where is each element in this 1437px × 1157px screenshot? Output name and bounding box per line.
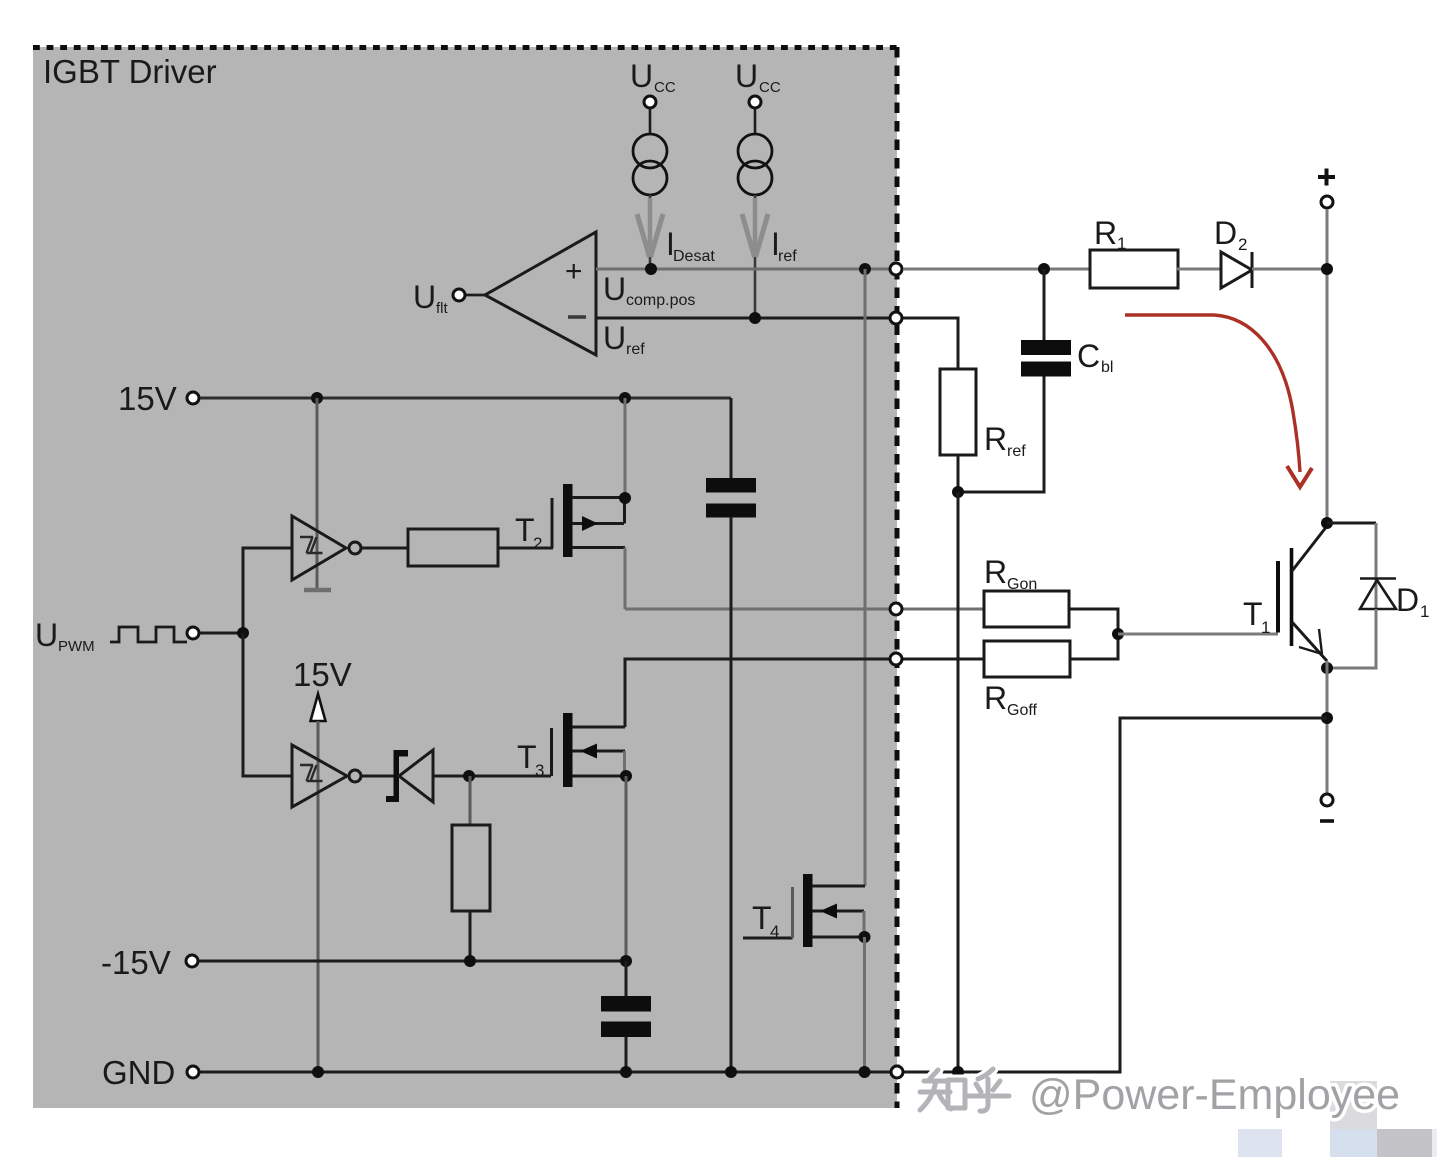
node plus line to border junction (859, 263, 871, 275)
label RGon (984, 554, 1037, 593)
svg-text:Desat: Desat (673, 248, 715, 265)
svg-text:U: U (630, 58, 653, 94)
label U_flt (413, 279, 449, 317)
label T1 (1243, 596, 1270, 637)
label minus output (1320, 819, 1334, 823)
bypass capacitor top (706, 478, 756, 518)
node T1 emitter (1321, 662, 1333, 674)
IGBT Driver title (43, 53, 217, 90)
node GND Rref on white side (952, 1066, 964, 1078)
wire inverter2 ground vertical to GND (317, 721, 320, 1072)
IGBT Driver block background (33, 47, 897, 1108)
svg-text:bl: bl (1101, 359, 1113, 376)
label Ucc left (630, 58, 676, 96)
wire T4 source to GND (863, 937, 866, 1072)
svg-text:ref: ref (626, 341, 645, 358)
wire pulldown resistor to -15V rail (469, 911, 472, 961)
svg-text:R: R (984, 680, 1007, 716)
wire emitter down (1326, 661, 1329, 800)
svg-text:D: D (1214, 215, 1237, 251)
terminal Ucc right (749, 96, 761, 108)
wire GND rail (200, 1071, 890, 1074)
watermark zhihu (920, 1069, 1400, 1119)
node I_Desat junction (645, 263, 657, 275)
wire Cbl top (1043, 269, 1046, 340)
label Ucc right (735, 58, 781, 96)
inverter U2 schmitt trigger (292, 516, 361, 580)
terminal minus output (1321, 794, 1333, 806)
svg-text:+: + (565, 255, 583, 288)
label plus supply (1318, 169, 1335, 186)
node 15V T2 branch (619, 392, 631, 404)
svg-text:U: U (603, 271, 626, 307)
op-amp comparator U_flt (485, 232, 596, 355)
label D1 (1396, 582, 1429, 621)
wire diode to T3 gate node (433, 775, 551, 778)
node R1 / Cbl junction (1038, 263, 1050, 275)
dashed border right (895, 47, 900, 1108)
wire D2 to plus node (1252, 268, 1327, 271)
label 15V rail (118, 380, 177, 417)
label I_Desat (666, 226, 715, 265)
svg-text:U: U (603, 320, 626, 356)
svg-text:ref: ref (1007, 443, 1026, 460)
wire comparator minus input line U_ref (596, 317, 958, 320)
wire under current source 1 (649, 195, 652, 266)
resistor R1 (1090, 250, 1178, 288)
svg-text:comp.pos: comp.pos (626, 292, 695, 309)
node T1 collector (1321, 517, 1333, 529)
wire D1 bottom vertical (1327, 609, 1376, 668)
svg-text:U: U (35, 617, 58, 653)
node T2 drain (619, 492, 631, 504)
terminal U_comp.pos on border (890, 263, 902, 275)
node U_PWM split (237, 627, 249, 639)
diode D2 (1221, 252, 1252, 288)
node plus rail / D2 (1321, 263, 1333, 275)
label U_PWM (35, 617, 95, 655)
node 15V inverter branch (311, 392, 323, 404)
wire inverter1 input (243, 548, 292, 633)
svg-text:ref: ref (778, 248, 797, 265)
svg-text:@Power-Employee: @Power-Employee (1029, 1071, 1400, 1119)
label Rref (984, 421, 1026, 460)
svg-text:CC: CC (654, 79, 676, 96)
svg-text:flt: flt (436, 300, 449, 317)
terminal Ucc left (644, 96, 656, 108)
label GND (102, 1054, 175, 1091)
current source I_Desat (633, 134, 667, 195)
wire inverter1 supply vertical (304, 398, 331, 590)
label T4 (752, 900, 779, 941)
svg-text:IGBT Driver: IGBT Driver (43, 53, 217, 90)
resistor RGon (984, 591, 1069, 627)
wire 15V rail (200, 397, 731, 400)
svg-text:15V: 15V (118, 380, 177, 417)
wire collector to D1 (1327, 522, 1376, 525)
node T3 gate / pulldown resistor (463, 770, 475, 782)
svg-text:Goff: Goff (1007, 702, 1038, 719)
wire node to pulldown resistor (469, 776, 472, 825)
wire bypass cap down to GND (730, 517, 733, 1072)
wire comparator plus input line U_comp.pos (596, 268, 1089, 271)
wire RGon to gate node (1069, 609, 1118, 634)
label T3 (517, 739, 544, 780)
svg-text:15V: 15V (293, 656, 352, 693)
wire plus terminal down (1326, 209, 1329, 523)
wire desat line to R1 (903, 268, 1089, 271)
node T3 source to -15V (620, 955, 632, 967)
15V supply arrow (311, 694, 326, 721)
current source I_ref (738, 134, 772, 195)
red arrow annotation (1125, 315, 1312, 487)
svg-text:2: 2 (533, 534, 542, 553)
wire T3 source down to -15V rail (625, 776, 628, 961)
wire Uref terminal to Rref (903, 318, 958, 369)
svg-text:U: U (413, 279, 436, 315)
capacitor Cbl (1021, 340, 1071, 377)
terminal U_ref on border (890, 312, 902, 324)
resistor T2 gate (408, 529, 498, 566)
wire bottom cap to GND (625, 1037, 628, 1072)
node gate drive join (1112, 628, 1124, 640)
label D2 (1214, 215, 1247, 254)
wire T2 source down (624, 548, 627, 610)
wire gate-off line to border (625, 659, 984, 727)
wire Rref bottom (957, 455, 960, 492)
wire Rref node down to GND (957, 492, 960, 1072)
svg-text:GND: GND (102, 1054, 175, 1091)
label 15V inverter2 supply (293, 656, 352, 693)
label -15V (101, 944, 171, 981)
wire gate-on line to border (625, 608, 984, 611)
transistor T2 (PMOS high side) (552, 484, 625, 557)
node T3 source (620, 770, 632, 782)
wire R1 to D2 (1177, 268, 1221, 271)
terminal gate-on on border (890, 603, 902, 615)
svg-text:CC: CC (759, 79, 781, 96)
label U_ref (603, 320, 645, 358)
label RGoff (984, 680, 1038, 719)
svg-text:-15V: -15V (101, 944, 171, 981)
label U_comp.pos (603, 271, 695, 309)
wire under current source 2 down to minus line (754, 195, 757, 318)
wire -15V to bottom cap (625, 961, 628, 996)
wire 15V to T2 drain vertical (624, 398, 627, 498)
svg-text:C: C (1077, 338, 1100, 374)
svg-text:R: R (1094, 215, 1117, 251)
terminal U_PWM (187, 627, 199, 639)
svg-text:T: T (515, 512, 535, 548)
wire inverter1 output to gate resistor (361, 547, 408, 550)
svg-text:1: 1 (1420, 602, 1429, 621)
terminal -15V (186, 955, 198, 967)
terminal U_flt (453, 289, 465, 301)
node Rref / Cbl (952, 486, 964, 498)
bottom right decorative squares (1238, 1081, 1437, 1157)
wire Ucc left stub (649, 109, 652, 134)
pwm waveform glyph (110, 627, 187, 642)
resistor pulldown (452, 825, 490, 911)
node T4 source (859, 931, 871, 943)
inverter U3 schmitt trigger (292, 745, 361, 807)
label R1 (1094, 215, 1126, 253)
terminal 15V (187, 392, 199, 404)
terminal GND (187, 1066, 199, 1078)
wire D1 top vertical (1375, 523, 1378, 610)
svg-text:U: U (735, 58, 758, 94)
terminal plus supply (1321, 196, 1333, 208)
label I_ref (771, 226, 797, 265)
wire desat sense vertical (864, 269, 867, 886)
wire Ucc right stub (754, 109, 757, 134)
svg-text:R: R (984, 421, 1007, 457)
svg-text:R: R (984, 554, 1007, 590)
wire op-amp output (466, 294, 485, 297)
arrow I_ref (742, 198, 768, 257)
wire -15V rail (199, 960, 626, 963)
resistor Rref (940, 369, 976, 455)
wire inverter2 output to diode (361, 775, 394, 778)
svg-text:1: 1 (1261, 618, 1270, 637)
wire U_PWM input (200, 632, 243, 635)
label T2 (515, 512, 542, 553)
node I_ref junction on minus line (749, 312, 761, 324)
terminal GND on border (891, 1066, 903, 1078)
wire emitter return to GND (904, 718, 1327, 1072)
node emitter return (1321, 712, 1333, 724)
svg-text:2: 2 (1238, 235, 1247, 254)
transistor T4 (desat clamp) (743, 874, 865, 947)
svg-text:T: T (1243, 596, 1263, 632)
node pulldown to -15V (464, 955, 476, 967)
wire gate line to T1 (1118, 633, 1278, 636)
wire gate resistor to T2 gate (498, 547, 553, 550)
svg-text:3: 3 (535, 761, 544, 780)
svg-text:T: T (517, 739, 537, 775)
dashed border top (33, 45, 897, 50)
diode schottky at inverter2 output (386, 750, 433, 802)
resistor RGoff (984, 641, 1070, 677)
node GND bottom cap (620, 1066, 632, 1078)
terminal gate-off on border (890, 653, 902, 665)
wire RGoff to gate node (1070, 634, 1118, 659)
transistor T1 IGBT (1278, 526, 1327, 661)
capacitor bottom (601, 996, 651, 1037)
diode D1 freewheeling (1360, 579, 1396, 610)
label Cbl (1077, 338, 1113, 376)
node GND T4 (859, 1066, 871, 1078)
node GND bypass cap (725, 1066, 737, 1078)
transistor T3 (NMOS low side) (552, 713, 627, 787)
svg-text:D: D (1396, 582, 1419, 618)
svg-text:PWM: PWM (58, 638, 95, 655)
wire Cbl bottom to Rref node (958, 377, 1044, 493)
svg-text:T: T (752, 900, 772, 936)
wire 15V corner down to bypass cap (730, 398, 733, 479)
wire inverter2 input (243, 633, 292, 776)
node GND inverter2 (312, 1066, 324, 1078)
arrow I_Desat (637, 198, 663, 257)
